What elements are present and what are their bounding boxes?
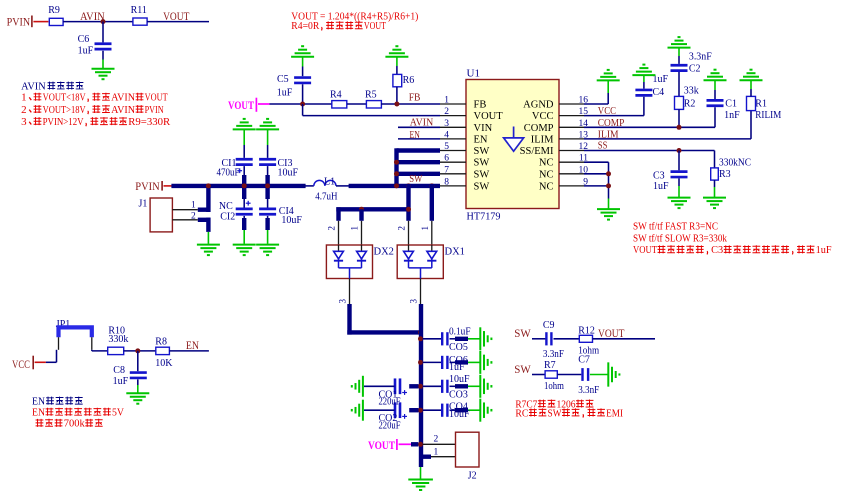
svg-text:330k: 330k	[108, 334, 128, 345]
svg-text:220uF: 220uF	[379, 397, 401, 408]
svg-text:700k: 700k	[64, 419, 86, 430]
svg-text:R6: R6	[403, 75, 415, 86]
svg-text:VOUT: VOUT	[163, 9, 190, 23]
svg-text:10uF: 10uF	[449, 374, 470, 385]
svg-text:R12: R12	[578, 326, 595, 337]
svg-text:RC: RC	[515, 408, 528, 419]
svg-text:VOUT: VOUT	[633, 245, 658, 256]
svg-text:10K: 10K	[155, 358, 173, 369]
svg-text:C4: C4	[653, 87, 665, 98]
svg-text:PVIN>12V: PVIN>12V	[43, 117, 85, 128]
svg-text:PVIN: PVIN	[7, 15, 31, 29]
svg-text:VOUT: VOUT	[474, 111, 504, 122]
svg-text:1: 1	[191, 200, 196, 210]
svg-text:SW: SW	[474, 146, 490, 157]
svg-text:FB: FB	[474, 100, 487, 111]
svg-text:3: 3	[409, 299, 419, 304]
svg-text:0.1uF: 0.1uF	[449, 327, 471, 338]
svg-text:4.7uH: 4.7uH	[315, 192, 337, 203]
svg-text:CO3: CO3	[449, 389, 468, 400]
svg-text:C5: C5	[277, 74, 289, 85]
svg-text:R11: R11	[131, 5, 147, 16]
svg-text:VCC: VCC	[532, 111, 554, 122]
svg-text:VOUT: VOUT	[364, 21, 387, 32]
svg-text:RILIM: RILIM	[755, 110, 781, 121]
svg-text:U1: U1	[467, 68, 480, 80]
svg-text:AGND: AGND	[523, 100, 554, 111]
svg-text:VOUT: VOUT	[368, 438, 395, 452]
svg-text:3: 3	[338, 299, 348, 304]
svg-text:10uF: 10uF	[449, 409, 470, 420]
svg-text:2: 2	[444, 107, 449, 117]
svg-text:CO5: CO5	[449, 342, 468, 353]
svg-text:SW: SW	[474, 158, 490, 169]
svg-text:2: 2	[327, 226, 337, 231]
svg-text:NC: NC	[539, 181, 554, 192]
svg-text:C3: C3	[711, 245, 723, 256]
svg-text:R8: R8	[155, 336, 167, 347]
svg-text:VOUT<18V: VOUT<18V	[43, 93, 87, 104]
svg-text:R9=330R: R9=330R	[128, 117, 170, 128]
svg-text:R4: R4	[330, 89, 342, 100]
svg-text:C8: C8	[113, 365, 125, 376]
svg-text:PVIN: PVIN	[145, 105, 165, 116]
svg-text:AVIN: AVIN	[21, 81, 46, 92]
svg-text:6: 6	[444, 154, 449, 164]
svg-text:CI2: CI2	[220, 211, 235, 222]
svg-text:FB: FB	[409, 91, 421, 103]
svg-text:1uF: 1uF	[277, 87, 293, 98]
svg-text:C3: C3	[653, 170, 665, 181]
svg-text:DX1: DX1	[445, 247, 465, 258]
svg-text:4: 4	[444, 130, 449, 140]
svg-text:R5: R5	[365, 89, 377, 100]
svg-text:COMP: COMP	[598, 117, 625, 129]
svg-text:ILIM: ILIM	[531, 134, 554, 145]
svg-text:C1: C1	[725, 99, 737, 110]
svg-text:EN: EN	[474, 134, 488, 145]
svg-text:EN: EN	[410, 129, 420, 141]
svg-text:3: 3	[21, 117, 27, 128]
svg-text:R2: R2	[684, 99, 696, 110]
svg-text:C7: C7	[578, 354, 590, 365]
svg-text:3.3nF: 3.3nF	[543, 349, 564, 360]
svg-text:1: 1	[21, 93, 27, 104]
svg-text:220uF: 220uF	[379, 420, 401, 431]
svg-text:8: 8	[444, 177, 449, 187]
svg-text:AVIN: AVIN	[111, 93, 136, 104]
svg-text:SW: SW	[514, 326, 531, 340]
svg-text:SW: SW	[514, 362, 531, 376]
svg-text:5: 5	[444, 142, 449, 152]
svg-text:R7: R7	[544, 360, 556, 371]
svg-text:DX2: DX2	[374, 247, 394, 258]
svg-text:10uF: 10uF	[281, 215, 302, 226]
svg-text:R9: R9	[48, 5, 60, 16]
svg-text:VOUT>18V: VOUT>18V	[43, 105, 87, 116]
svg-text:SW: SW	[548, 408, 562, 419]
svg-text:1: 1	[444, 96, 449, 106]
svg-text:EN: EN	[32, 408, 46, 419]
svg-text:33k: 33k	[684, 86, 699, 97]
svg-text:3.3nF: 3.3nF	[689, 52, 712, 63]
svg-text:EN: EN	[32, 397, 45, 408]
svg-text:2: 2	[434, 434, 439, 444]
svg-text:1uF: 1uF	[816, 245, 832, 256]
svg-text:VOUT: VOUT	[598, 326, 625, 340]
svg-text:R3: R3	[719, 169, 731, 180]
svg-text:VOUT: VOUT	[228, 98, 254, 112]
svg-text:1: 1	[420, 226, 430, 231]
svg-text:SS/EMI: SS/EMI	[520, 146, 554, 157]
svg-text:AVIN: AVIN	[410, 117, 433, 129]
svg-text:SW: SW	[474, 181, 490, 192]
svg-text:1: 1	[434, 447, 439, 457]
svg-text:SW tf/tf SLOW R3=330k: SW tf/tf SLOW R3=330k	[633, 233, 728, 244]
svg-text:2: 2	[191, 211, 196, 221]
svg-text:1: 1	[350, 226, 360, 231]
svg-text:1ohm: 1ohm	[544, 381, 564, 392]
svg-text:NC: NC	[539, 169, 554, 180]
svg-text:SW tf/tf FAST R3=NC: SW tf/tf FAST R3=NC	[633, 221, 718, 232]
svg-text:AVIN: AVIN	[111, 105, 136, 116]
svg-text:HT7179: HT7179	[467, 211, 501, 223]
svg-text:R4=0R: R4=0R	[291, 21, 319, 32]
svg-text:7: 7	[444, 165, 449, 175]
svg-text:1uF: 1uF	[78, 46, 94, 57]
svg-text:J1: J1	[139, 198, 148, 209]
svg-text:1uF: 1uF	[449, 362, 465, 373]
svg-text:PVIN: PVIN	[135, 179, 160, 193]
svg-text:EMI: EMI	[606, 408, 624, 419]
svg-text:COMP: COMP	[524, 123, 554, 134]
svg-text:C6: C6	[78, 34, 90, 45]
svg-text:470uF: 470uF	[217, 167, 240, 178]
svg-text:NC: NC	[539, 158, 554, 169]
svg-text:330kNC: 330kNC	[719, 157, 751, 168]
svg-text:C9: C9	[543, 320, 555, 331]
svg-text:3: 3	[444, 119, 449, 129]
svg-text:VOUT: VOUT	[145, 93, 169, 104]
svg-text:L1: L1	[324, 177, 335, 188]
svg-text:1uF: 1uF	[653, 181, 669, 192]
svg-text:1uF: 1uF	[113, 376, 129, 387]
svg-text:EN: EN	[186, 338, 199, 352]
svg-text:2: 2	[21, 105, 27, 116]
svg-text:1nF: 1nF	[724, 110, 740, 121]
svg-text:10uF: 10uF	[278, 167, 299, 178]
svg-text:VCC: VCC	[598, 105, 616, 117]
svg-text:NC: NC	[219, 201, 233, 212]
svg-text:2: 2	[397, 226, 407, 231]
svg-text:C2: C2	[689, 63, 701, 74]
svg-text:J2: J2	[468, 470, 477, 481]
svg-text:5V: 5V	[112, 408, 125, 419]
svg-text:SS: SS	[598, 139, 608, 151]
svg-text:3.3nF: 3.3nF	[578, 385, 599, 396]
svg-text:SW: SW	[474, 169, 490, 180]
svg-text:VIN: VIN	[474, 123, 493, 134]
svg-text:R1: R1	[755, 99, 767, 110]
svg-text:VCC: VCC	[12, 357, 30, 371]
svg-text:SW: SW	[409, 173, 422, 185]
